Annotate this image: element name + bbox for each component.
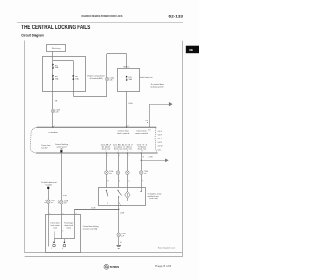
svg-text:lock sw: lock sw (114, 149, 124, 151)
svg-text:6: 6 (62, 248, 63, 250)
svg-text:1: 1 (63, 230, 64, 232)
svg-text:3: 3 (76, 213, 77, 215)
svg-text:0.5 G: 0.5 G (158, 131, 163, 133)
svg-text:Fusebox: Fusebox (49, 132, 58, 134)
svg-text:actuator assembly: actuator assembly (83, 228, 98, 231)
svg-text:2: 2 (106, 151, 107, 153)
svg-text:DAEWOO NUBIRA POWER DOOR LOCK: DAEWOO NUBIRA POWER DOOR LOCK (82, 14, 123, 18)
svg-text:(sw): (sw) (53, 227, 57, 229)
svg-text:6E: 6E (189, 48, 193, 52)
svg-text:1: 1 (119, 155, 120, 157)
svg-text:lock sw: lock sw (123, 149, 133, 151)
svg-text:lock sw: lock sw (102, 149, 112, 151)
svg-text:2: 2 (107, 155, 108, 157)
svg-text:7: 7 (128, 155, 129, 157)
svg-text:0.5Gr: 0.5Gr (128, 102, 133, 105)
svg-text:8: 8 (108, 181, 109, 183)
svg-text:62-133: 62-133 (169, 15, 184, 19)
svg-text:0.5 L: 0.5 L (158, 149, 162, 151)
svg-text:8: 8 (142, 151, 143, 153)
svg-text:PATRON: PATRON (110, 265, 119, 269)
svg-text:lock switch: lock switch (117, 132, 129, 135)
svg-text:0.5 R: 0.5 R (158, 135, 163, 137)
svg-text:Battery: Battery (52, 47, 61, 50)
svg-text:1: 1 (49, 213, 50, 215)
svg-text:1: 1 (51, 248, 52, 250)
svg-text:Page 8 of 8: Page 8 of 8 (155, 264, 172, 268)
svg-text:locking system: locking system (151, 85, 164, 88)
svg-text:(anti unit): (anti unit) (150, 197, 158, 200)
svg-text:Base diagram scan: Base diagram scan (158, 247, 175, 249)
svg-text:B: B (143, 156, 144, 158)
svg-text:1: 1 (107, 203, 108, 205)
svg-text:2: 2 (129, 181, 130, 183)
svg-text:module: module (46, 185, 53, 187)
svg-text:3: 3 (120, 205, 121, 207)
svg-text:lock sw: lock sw (138, 149, 148, 151)
svg-text:8: 8 (128, 125, 129, 127)
svg-text:motor: motor (67, 226, 72, 229)
svg-text:7: 7 (142, 181, 143, 183)
svg-text:main switch: main switch (135, 132, 148, 135)
svg-text:1: 1 (119, 181, 120, 183)
svg-text:THE CENTRAL LOCKING FAILS: THE CENTRAL LOCKING FAILS (21, 25, 90, 31)
svg-text:7: 7 (54, 125, 55, 127)
svg-text:5: 5 (62, 213, 63, 215)
svg-text:7: 7 (127, 151, 128, 153)
svg-text:0.5 W: 0.5 W (158, 146, 163, 148)
svg-text:box E2: box E2 (42, 147, 48, 149)
svg-text:Switch breaker unit: Switch breaker unit (140, 76, 153, 79)
svg-text:1: 1 (118, 151, 119, 153)
svg-text:0.5: 0.5 (148, 130, 150, 132)
svg-text:S830 2: S830 2 (123, 66, 129, 68)
svg-text:of fusebox(E/B): of fusebox(E/B) (90, 78, 103, 80)
svg-text:9: 9 (58, 203, 59, 205)
svg-text:Circuit Diagram: Circuit Diagram (21, 34, 44, 38)
